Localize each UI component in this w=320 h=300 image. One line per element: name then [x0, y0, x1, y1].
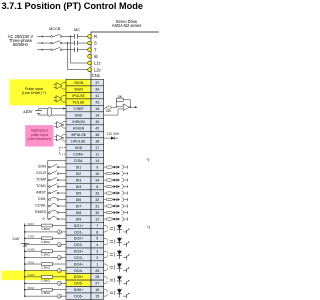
svg-text:TPOS: TPOS [28, 261, 35, 264]
svg-text:(Line Receiver): (Line Receiver) [27, 137, 51, 141]
svg-text:DO6-: DO6- [74, 294, 83, 298]
svg-text:DO3-: DO3- [74, 256, 83, 260]
svg-text:/PULSE: /PULSE [72, 94, 85, 98]
svg-text:DO2-: DO2- [74, 243, 83, 247]
svg-text:(Line Driver) *1: (Line Driver) *1 [22, 91, 46, 95]
svg-text:DO1+: DO1+ [74, 224, 84, 228]
svg-text:MC: MC [74, 28, 80, 32]
svg-text:DO2+: DO2+ [74, 237, 84, 241]
svg-text:DO4+: DO4+ [74, 262, 84, 266]
svg-text:DO4-: DO4- [74, 269, 83, 273]
svg-text:DI9: DI9 [76, 217, 82, 221]
svg-text:0: 0 [42, 217, 44, 221]
svg-text:PULSE: PULSE [73, 100, 85, 104]
svg-text:DI8: DI8 [76, 211, 82, 215]
svg-text:31: 31 [95, 204, 99, 208]
svg-text:27: 27 [95, 282, 99, 286]
svg-text:39: 39 [95, 87, 99, 91]
svg-text:CCWL: CCWL [35, 204, 46, 208]
svg-text:30: 30 [95, 211, 99, 215]
svg-text:L1c: L1c [94, 61, 101, 66]
svg-text:1.5KΩ: 1.5KΩ [41, 278, 50, 282]
svg-text:1.5KΩ: 1.5KΩ [41, 240, 50, 244]
svg-text:5: 5 [96, 237, 98, 241]
svg-text:33: 33 [95, 191, 99, 195]
svg-text:DO6+: DO6+ [74, 288, 84, 292]
svg-text:VDD: VDD [75, 146, 83, 150]
svg-text:10K: 10K [117, 95, 122, 99]
svg-text:6: 6 [96, 230, 98, 234]
svg-text:S: S [94, 41, 97, 46]
svg-text:24V: 24V [12, 236, 19, 241]
svg-text:12: 12 [95, 217, 99, 221]
svg-text:BRKR: BRKR [28, 287, 35, 290]
svg-text:3: 3 [96, 250, 98, 254]
svg-text:36: 36 [95, 133, 99, 137]
svg-text:SON: SON [38, 165, 46, 169]
svg-text:SIGN: SIGN [74, 87, 83, 91]
svg-text:11: 11 [95, 152, 99, 156]
svg-text:SRDY: SRDY [28, 223, 35, 226]
svg-text:HOME: HOME [27, 248, 35, 251]
svg-text:40: 40 [95, 120, 99, 124]
svg-text:9: 9 [96, 165, 98, 169]
svg-text:DO3+: DO3+ [74, 250, 84, 254]
svg-text:±10V: ±10V [23, 109, 33, 114]
svg-text:/SIGN: /SIGN [74, 81, 84, 85]
svg-text:38: 38 [95, 139, 99, 143]
svg-text:10K: 10K [106, 109, 111, 113]
svg-text:COM-: COM- [74, 159, 84, 163]
svg-text:MCCB: MCCB [49, 27, 61, 31]
svg-text:18: 18 [95, 107, 99, 111]
svg-text:16: 16 [95, 288, 99, 292]
svg-text:1.5KΩ: 1.5KΩ [41, 253, 50, 257]
svg-text:DI2: DI2 [76, 172, 82, 176]
svg-text:ARST: ARST [36, 191, 47, 195]
svg-text:T-REF: T-REF [73, 107, 84, 111]
svg-text:1.5KΩ: 1.5KΩ [41, 265, 50, 269]
svg-text:14: 14 [95, 159, 99, 163]
svg-text:DI3: DI3 [76, 178, 82, 182]
svg-text:17: 17 [95, 146, 99, 150]
svg-text:15: 15 [95, 294, 99, 298]
svg-text:DI6: DI6 [76, 198, 82, 202]
svg-text:DI7: DI7 [76, 204, 82, 208]
svg-text:R: R [94, 34, 97, 39]
svg-text:*3: *3 [147, 226, 150, 230]
svg-text:34: 34 [95, 178, 99, 182]
svg-text:DI5: DI5 [76, 191, 82, 195]
svg-text:TCM1: TCM1 [36, 184, 46, 188]
svg-text:8: 8 [96, 185, 98, 189]
svg-text:*2: *2 [147, 158, 150, 162]
svg-text:TCM0: TCM0 [36, 178, 46, 182]
svg-text:HPULSE: HPULSE [71, 139, 86, 143]
svg-text:GND: GND [75, 113, 83, 117]
svg-text:1.5KΩ: 1.5KΩ [41, 227, 50, 231]
svg-text:4: 4 [96, 243, 98, 247]
svg-text:CN1: CN1 [92, 73, 101, 78]
svg-text:7: 7 [96, 224, 98, 228]
svg-text:DI4: DI4 [76, 185, 82, 189]
svg-text:/HPULSE: /HPULSE [71, 133, 87, 137]
svg-text:32: 32 [95, 198, 99, 202]
svg-text:Pulse input: Pulse input [25, 87, 43, 91]
svg-text:EMGS: EMGS [35, 210, 46, 214]
svg-text:ASDA-B2 series: ASDA-B2 series [112, 23, 142, 28]
svg-text:L2c: L2c [94, 67, 101, 72]
svg-text:19: 19 [95, 113, 99, 117]
svg-text:1.5KΩ: 1.5KΩ [41, 291, 50, 295]
svg-text:DO1-: DO1- [74, 230, 83, 234]
svg-text:10: 10 [95, 172, 99, 176]
svg-text:DO5-: DO5- [74, 282, 83, 286]
svg-text:3.7.1 Position (PT) Control Mo: 3.7.1 Position (PT) Control Mode [2, 1, 144, 11]
svg-text:1: 1 [96, 262, 98, 266]
svg-text:42: 42 [95, 126, 99, 130]
svg-text:28: 28 [95, 275, 99, 279]
svg-text:50/60Hz: 50/60Hz [13, 42, 28, 47]
svg-text:/HSIGN: /HSIGN [72, 120, 85, 124]
svg-text:COM+: COM+ [73, 152, 83, 156]
svg-text:CCLR: CCLR [36, 171, 46, 175]
svg-text:HSIGN: HSIGN [73, 126, 85, 130]
svg-text:ZSPD: ZSPD [28, 236, 35, 239]
svg-text:DC 24V: DC 24V [107, 132, 119, 136]
svg-text:DI1: DI1 [76, 165, 82, 169]
svg-text:CWL: CWL [38, 197, 46, 201]
svg-text:26: 26 [95, 269, 99, 273]
svg-text:ALRM: ALRM [28, 274, 35, 277]
svg-text:DO5+: DO5+ [74, 275, 84, 279]
svg-text:T: T [94, 47, 97, 52]
svg-text:37: 37 [95, 81, 99, 85]
svg-text:2: 2 [96, 256, 98, 260]
svg-text:43: 43 [95, 100, 99, 104]
svg-text:41: 41 [95, 94, 99, 98]
